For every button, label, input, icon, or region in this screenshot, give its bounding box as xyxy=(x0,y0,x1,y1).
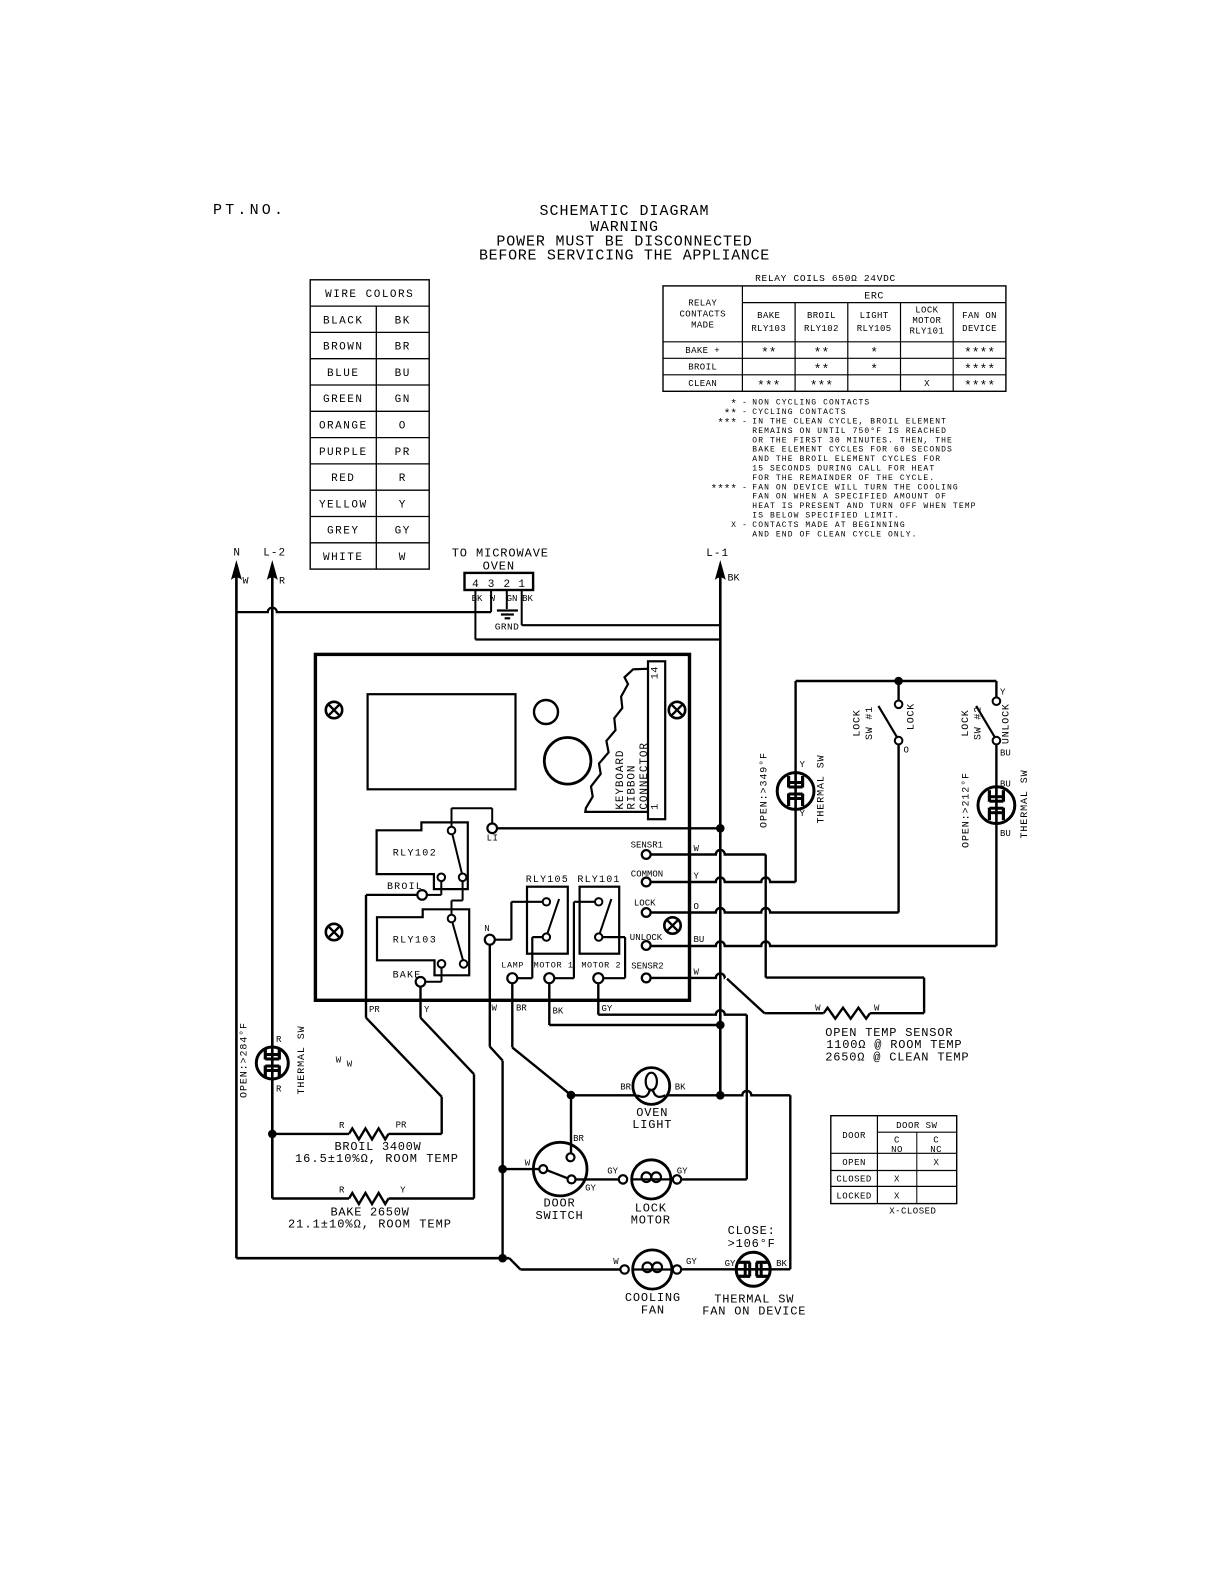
svg-text:**: ** xyxy=(761,346,777,361)
svg-text:****: **** xyxy=(711,484,737,496)
svg-text:BROIL: BROIL xyxy=(807,311,836,321)
svg-text:L-1: L-1 xyxy=(706,548,729,560)
svg-text:UNLOCK: UNLOCK xyxy=(630,933,663,943)
svg-text:CONTACTS: CONTACTS xyxy=(679,310,725,320)
svg-text:****: **** xyxy=(964,362,995,377)
svg-text:RLY103: RLY103 xyxy=(393,936,437,947)
svg-text:14: 14 xyxy=(650,666,661,679)
svg-text:X: X xyxy=(894,1175,900,1185)
svg-text:RELAY: RELAY xyxy=(688,299,717,309)
svg-text:Y: Y xyxy=(800,809,806,819)
svg-text:Y: Y xyxy=(694,872,700,882)
svg-text:R: R xyxy=(339,1186,345,1196)
svg-text:FAN ON WHEN A SPECIFIED AMOUNT: FAN ON WHEN A SPECIFIED AMOUNT OF xyxy=(752,493,947,502)
svg-text:BAKE +: BAKE + xyxy=(685,346,720,356)
svg-text:RLY102: RLY102 xyxy=(393,848,437,859)
svg-text:CONNECTOR: CONNECTOR xyxy=(639,742,651,810)
svg-text:****: **** xyxy=(964,379,995,394)
svg-text:MOTOR: MOTOR xyxy=(912,316,941,326)
svg-text:GREEN: GREEN xyxy=(323,394,364,406)
svg-text:DOOR: DOOR xyxy=(842,1131,866,1141)
svg-text:IS BELOW SPECIFIED LIMIT.: IS BELOW SPECIFIED LIMIT. xyxy=(752,512,900,521)
svg-text:LOCK: LOCK xyxy=(915,306,938,316)
svg-text:CYCLING CONTACTS: CYCLING CONTACTS xyxy=(752,408,846,417)
svg-text:W: W xyxy=(694,844,700,854)
svg-text:NC: NC xyxy=(930,1145,942,1155)
svg-text:FAN ON: FAN ON xyxy=(962,311,997,321)
svg-text:REMAINS ON UNTIL 750°F IS REAC: REMAINS ON UNTIL 750°F IS REACHED xyxy=(752,427,947,436)
svg-text:L-2: L-2 xyxy=(263,548,286,560)
svg-text:THERMAL SW: THERMAL SW xyxy=(297,1025,308,1094)
svg-text:GREY: GREY xyxy=(327,526,359,538)
svg-text:RLY102: RLY102 xyxy=(804,324,839,334)
svg-text:BR: BR xyxy=(620,1083,631,1093)
svg-text:BK: BK xyxy=(472,594,483,604)
svg-text:R: R xyxy=(276,1035,282,1045)
svg-text:****: **** xyxy=(964,346,995,361)
svg-text:CONTACTS MADE AT BEGINNING: CONTACTS MADE AT BEGINNING xyxy=(752,521,905,530)
svg-text:LIGHT: LIGHT xyxy=(632,1118,672,1132)
svg-text:OPEN:>284°F: OPEN:>284°F xyxy=(239,1022,251,1098)
svg-text:Y: Y xyxy=(399,499,407,511)
svg-text:SENSR1: SENSR1 xyxy=(631,840,663,850)
svg-text:MOTOR 1: MOTOR 1 xyxy=(534,960,574,970)
svg-text:BAKE: BAKE xyxy=(757,311,780,321)
svg-text:COMMON: COMMON xyxy=(631,869,663,879)
svg-text:>106°F: >106°F xyxy=(728,1237,776,1251)
svg-text:W: W xyxy=(336,1056,342,1066)
svg-text:R: R xyxy=(279,577,285,588)
svg-text:LAMP: LAMP xyxy=(501,960,524,970)
svg-text:BR: BR xyxy=(516,1004,527,1014)
svg-text:SENSR2: SENSR2 xyxy=(631,962,663,972)
svg-text:***: *** xyxy=(717,418,737,430)
svg-text:W: W xyxy=(694,968,700,978)
svg-text:3: 3 xyxy=(488,579,495,591)
svg-text:OPEN:>349°F: OPEN:>349°F xyxy=(759,752,771,828)
svg-text:O: O xyxy=(399,420,407,432)
svg-text:BK: BK xyxy=(728,574,740,585)
svg-text:BR: BR xyxy=(395,342,411,354)
svg-text:BU: BU xyxy=(395,368,411,380)
svg-text:C: C xyxy=(894,1136,900,1146)
svg-text:LI: LI xyxy=(487,834,499,844)
svg-text:RED: RED xyxy=(331,473,355,485)
svg-text:X: X xyxy=(933,1158,939,1168)
svg-text:BK: BK xyxy=(395,315,411,327)
svg-text:BR: BR xyxy=(573,1134,584,1144)
svg-text:OPEN: OPEN xyxy=(842,1158,866,1168)
svg-text:RIBBON: RIBBON xyxy=(626,765,638,810)
svg-text:THERMAL SW: THERMAL SW xyxy=(1020,769,1031,838)
svg-text:GY: GY xyxy=(395,526,411,538)
svg-text:BU: BU xyxy=(1000,749,1011,759)
svg-text:RELAY COILS 650Ω 24VDC: RELAY COILS 650Ω 24VDC xyxy=(755,273,896,284)
svg-text:-: - xyxy=(742,483,747,492)
svg-text:BU: BU xyxy=(1000,829,1011,839)
svg-text:N: N xyxy=(233,548,241,560)
svg-text:BU: BU xyxy=(694,935,705,945)
svg-text:4: 4 xyxy=(472,579,479,591)
svg-text:BK: BK xyxy=(675,1083,686,1093)
svg-text:***: *** xyxy=(757,379,780,394)
svg-text:GY: GY xyxy=(686,1257,697,1267)
svg-text:LOCKED: LOCKED xyxy=(836,1191,871,1201)
svg-text:X: X xyxy=(731,521,737,530)
svg-text:RLY105: RLY105 xyxy=(857,324,892,334)
svg-text:RLY101: RLY101 xyxy=(577,875,620,886)
svg-text:W: W xyxy=(492,1004,498,1014)
svg-text:**: ** xyxy=(814,346,830,361)
svg-text:WHITE: WHITE xyxy=(323,552,364,564)
svg-text:*: * xyxy=(870,346,878,361)
svg-text:BK: BK xyxy=(776,1259,787,1269)
svg-text:DEVICE: DEVICE xyxy=(962,324,997,334)
svg-text:UNLOCK: UNLOCK xyxy=(1001,703,1012,744)
svg-text:W: W xyxy=(347,1060,353,1070)
svg-text:OVEN: OVEN xyxy=(483,560,515,574)
svg-text:CLEAN: CLEAN xyxy=(688,379,717,389)
svg-text:OPEN:>212°F: OPEN:>212°F xyxy=(960,772,972,848)
svg-text:MADE: MADE xyxy=(691,321,714,331)
svg-text:PR: PR xyxy=(396,1121,407,1131)
svg-text:LOCK: LOCK xyxy=(634,898,656,908)
svg-text:PURPLE: PURPLE xyxy=(319,447,368,459)
svg-text:FOR THE REMAINDER OF THE CYCLE: FOR THE REMAINDER OF THE CYCLE. xyxy=(752,474,935,483)
svg-text:FAN ON DEVICE: FAN ON DEVICE xyxy=(702,1304,806,1318)
svg-text:*: * xyxy=(870,362,878,377)
svg-text:1: 1 xyxy=(518,579,525,591)
svg-text:LOCK: LOCK xyxy=(961,709,972,736)
svg-text:GN: GN xyxy=(395,394,411,406)
svg-text:CLOSED: CLOSED xyxy=(836,1175,871,1185)
svg-text:BK: BK xyxy=(522,594,533,604)
svg-text:W: W xyxy=(815,1004,821,1014)
svg-text:GY: GY xyxy=(725,1259,736,1269)
svg-text:2650Ω @ CLEAN TEMP: 2650Ω @ CLEAN TEMP xyxy=(825,1050,969,1064)
svg-text:SCHEMATIC DIAGRAM: SCHEMATIC DIAGRAM xyxy=(539,203,709,220)
svg-text:YELLOW: YELLOW xyxy=(319,499,368,511)
svg-text:ORANGE: ORANGE xyxy=(319,420,368,432)
svg-text:BK: BK xyxy=(553,1007,564,1017)
svg-text:GY: GY xyxy=(602,1004,613,1014)
svg-text:2: 2 xyxy=(503,579,510,591)
svg-text:AND THE BROIL ELEMENT CYCLES F: AND THE BROIL ELEMENT CYCLES FOR xyxy=(752,455,941,464)
svg-text:***: *** xyxy=(810,379,833,394)
svg-text:C: C xyxy=(933,1136,939,1146)
svg-text:AND END OF CLEAN CYCLE ONLY.: AND END OF CLEAN CYCLE ONLY. xyxy=(752,530,917,539)
svg-text:W: W xyxy=(399,552,407,564)
svg-text:R: R xyxy=(276,1085,282,1095)
svg-text:16.5±10%Ω, ROOM TEMP: 16.5±10%Ω, ROOM TEMP xyxy=(295,1152,459,1166)
svg-text:Y: Y xyxy=(424,1005,430,1015)
svg-text:R: R xyxy=(339,1121,345,1131)
svg-text:GN: GN xyxy=(507,594,518,604)
svg-text:**: ** xyxy=(814,362,830,377)
svg-text:NON CYCLING CONTACTS: NON CYCLING CONTACTS xyxy=(752,399,870,408)
svg-text:PR: PR xyxy=(369,1005,380,1015)
svg-text:21.1±10%Ω, ROOM TEMP: 21.1±10%Ω, ROOM TEMP xyxy=(288,1218,452,1232)
svg-text:PT.NO.: PT.NO. xyxy=(213,202,286,219)
svg-text:HEAT IS PRESENT AND TURN OFF W: HEAT IS PRESENT AND TURN OFF WHEN TEMP xyxy=(752,502,976,511)
svg-text:W: W xyxy=(874,1004,880,1014)
svg-text:BLACK: BLACK xyxy=(323,315,364,327)
svg-text:-: - xyxy=(742,399,747,408)
svg-text:Y: Y xyxy=(1000,688,1006,698)
svg-text:OR THE FIRST 30 MINUTES. THEN,: OR THE FIRST 30 MINUTES. THEN, THE xyxy=(752,436,953,445)
svg-text:X: X xyxy=(924,379,930,389)
svg-text:BU: BU xyxy=(1000,780,1011,790)
svg-text:SW #1: SW #1 xyxy=(865,706,876,740)
svg-text:-: - xyxy=(742,418,747,427)
svg-text:IN THE CLEAN CYCLE, BROIL ELEM: IN THE CLEAN CYCLE, BROIL ELEMENT xyxy=(752,418,947,427)
svg-text:MOTOR 2: MOTOR 2 xyxy=(581,960,621,970)
svg-text:W: W xyxy=(243,577,249,588)
svg-text:RLY103: RLY103 xyxy=(751,324,786,334)
svg-text:NO: NO xyxy=(891,1145,903,1155)
svg-text:TO MICROWAVE: TO MICROWAVE xyxy=(452,547,549,561)
svg-text:SWITCH: SWITCH xyxy=(535,1209,583,1223)
svg-text:GY: GY xyxy=(677,1167,688,1177)
svg-text:LOCK: LOCK xyxy=(907,703,918,730)
svg-text:RLY101: RLY101 xyxy=(909,327,944,337)
svg-text:FAN ON DEVICE WILL TURN THE CO: FAN ON DEVICE WILL TURN THE COOLING xyxy=(752,483,959,492)
svg-text:DOOR SW: DOOR SW xyxy=(896,1121,937,1131)
svg-text:1: 1 xyxy=(650,803,661,810)
svg-text:BLUE: BLUE xyxy=(327,368,359,380)
svg-text:LIGHT: LIGHT xyxy=(860,311,889,321)
svg-text:BROIL: BROIL xyxy=(688,363,717,373)
svg-text:SW #2: SW #2 xyxy=(974,706,985,740)
svg-text:MOTOR: MOTOR xyxy=(631,1214,671,1228)
svg-text:15 SECONDS DURING CALL FOR HEA: 15 SECONDS DURING CALL FOR HEAT xyxy=(752,465,935,474)
svg-text:WIRE COLORS: WIRE COLORS xyxy=(325,289,414,301)
svg-text:GY: GY xyxy=(585,1184,596,1194)
svg-text:FAN: FAN xyxy=(641,1303,665,1317)
svg-text:X-CLOSED: X-CLOSED xyxy=(889,1207,936,1217)
svg-text:BAKE: BAKE xyxy=(393,971,422,982)
svg-text:BROIL: BROIL xyxy=(387,882,423,893)
svg-text:ERC: ERC xyxy=(864,292,884,303)
svg-text:W: W xyxy=(613,1257,619,1267)
svg-text:O: O xyxy=(904,746,909,756)
svg-text:LOCK: LOCK xyxy=(852,709,863,736)
svg-text:PR: PR xyxy=(395,447,411,459)
svg-text:N: N xyxy=(484,924,489,934)
svg-text:Y: Y xyxy=(800,760,806,770)
svg-text:GY: GY xyxy=(607,1167,618,1177)
svg-text:-: - xyxy=(742,521,747,530)
svg-text:GRND: GRND xyxy=(495,622,519,633)
svg-text:R: R xyxy=(399,473,407,485)
svg-text:Y: Y xyxy=(400,1186,406,1196)
svg-text:W: W xyxy=(525,1158,531,1168)
svg-text:RLY105: RLY105 xyxy=(526,875,569,886)
svg-text:THERMAL SW: THERMAL SW xyxy=(817,754,828,823)
svg-text:X: X xyxy=(894,1191,900,1201)
svg-text:KEYBOARD: KEYBOARD xyxy=(615,750,627,810)
svg-text:O: O xyxy=(694,902,699,912)
svg-text:-: - xyxy=(742,408,747,417)
svg-text:BEFORE SERVICING THE APPLIANCE: BEFORE SERVICING THE APPLIANCE xyxy=(479,248,770,265)
svg-text:BROWN: BROWN xyxy=(323,342,364,354)
svg-text:BAKE ELEMENT CYCLES FOR 60 SEC: BAKE ELEMENT CYCLES FOR 60 SECONDS xyxy=(752,446,953,455)
